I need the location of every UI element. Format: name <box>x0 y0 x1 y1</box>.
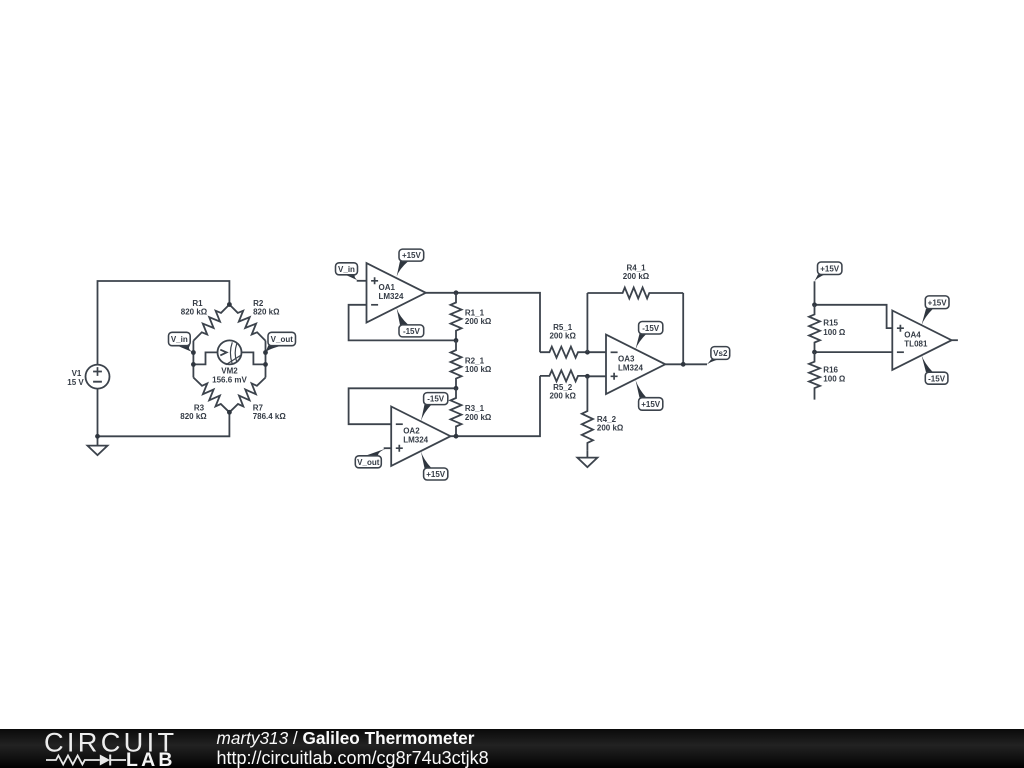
svg-text:LM324: LM324 <box>618 364 643 373</box>
power flag -15V OA1 <box>397 308 409 325</box>
node R1_1/R2_1 <box>454 338 459 343</box>
svg-text:+15V: +15V <box>928 298 948 307</box>
resistor R1 <box>193 305 229 341</box>
svg-text:OA3: OA3 <box>618 355 635 364</box>
resistor R2_1 <box>451 340 462 388</box>
wire OA2 +in stub <box>384 447 392 449</box>
svg-text:V_in: V_in <box>171 335 188 344</box>
svg-text:LAB: LAB <box>126 749 176 768</box>
wire bridge left corner <box>192 341 194 378</box>
wire OA3 -in <box>587 351 606 353</box>
flag V_out OA2 <box>365 448 387 456</box>
ground <box>97 436 99 445</box>
svg-text:OA2: OA2 <box>403 427 420 436</box>
node R15/R16 <box>812 350 817 355</box>
svg-text:100 Ω: 100 Ω <box>823 375 846 384</box>
wire OA3 output <box>665 363 707 365</box>
voltmeter VM2 <box>218 340 242 364</box>
flag V_out bridge <box>265 345 283 352</box>
wire R4_1 left <box>586 293 588 352</box>
svg-text:+15V: +15V <box>426 470 446 479</box>
power flag +15V OA2 <box>421 451 432 468</box>
svg-text:100 kΩ: 100 kΩ <box>465 365 492 374</box>
svg-text:V_out: V_out <box>357 458 380 467</box>
logo resistor-diode glyph <box>46 756 126 765</box>
resistor R3_1 <box>451 388 462 436</box>
resistor R2 <box>229 305 265 341</box>
svg-text:-15V: -15V <box>427 395 445 404</box>
wire V1 top rail <box>98 281 230 365</box>
svg-text:OA1: OA1 <box>379 283 396 292</box>
svg-text:820 kΩ: 820 kΩ <box>180 412 207 421</box>
svg-text:OA4: OA4 <box>904 331 921 340</box>
svg-text:-15V: -15V <box>403 327 421 336</box>
power flag +15V OA1 <box>397 261 409 277</box>
svg-text:200 kΩ: 200 kΩ <box>549 332 576 341</box>
node R2_1/R3_1 <box>454 386 459 391</box>
node V_out tap <box>263 350 268 355</box>
svg-text:+15V: +15V <box>402 251 422 260</box>
op-amp OA1 <box>367 263 426 322</box>
svg-text:200 kΩ: 200 kΩ <box>597 424 624 433</box>
svg-text:15 V: 15 V <box>67 378 84 387</box>
svg-text:200 kΩ: 200 kΩ <box>549 392 576 401</box>
svg-text:Vs2: Vs2 <box>713 349 728 358</box>
wire VM2 left <box>193 352 217 364</box>
resistor R4_1 <box>587 288 683 299</box>
power flag -15V OA3 <box>635 334 646 350</box>
svg-text:V_out: V_out <box>271 335 294 344</box>
voltage source V1 <box>86 365 110 389</box>
svg-text:VM2: VM2 <box>221 367 238 376</box>
svg-text:200 kΩ: 200 kΩ <box>623 272 650 281</box>
svg-text:V1: V1 <box>72 369 82 378</box>
node OA3 output <box>681 362 686 367</box>
svg-text:http://circuitlab.com/cg8r74u3: http://circuitlab.com/cg8r74u3ctjk8 <box>217 748 489 768</box>
footer bar <box>0 729 1024 768</box>
resistor R7 <box>229 378 265 413</box>
svg-text:V_in: V_in <box>338 265 355 274</box>
svg-text:+15V: +15V <box>820 264 840 273</box>
node bridge left lower <box>191 362 196 367</box>
node junction at ground <box>95 434 100 439</box>
power flag +15V R15 <box>815 274 826 281</box>
svg-text:156.6 mV: 156.6 mV <box>212 376 247 385</box>
power flag -15V OA2 <box>421 405 432 422</box>
node OA3 -in <box>585 350 590 355</box>
node OA3 +in <box>585 374 590 379</box>
wire R15/R16 node to OA4 - <box>815 351 893 353</box>
node V_in tap <box>191 350 196 355</box>
svg-text:-15V: -15V <box>928 374 946 383</box>
svg-text:786.4 kΩ: 786.4 kΩ <box>253 412 287 421</box>
wire VM2 right <box>242 352 266 364</box>
wire OA3 +in <box>587 375 606 377</box>
svg-text:100 Ω: 100 Ω <box>823 328 846 337</box>
resistor R16 <box>809 352 820 400</box>
wire OA1 output <box>426 293 540 352</box>
ground under R4_2 <box>586 451 588 458</box>
wire OA1 feedback <box>349 305 456 341</box>
node bridge bottom <box>227 410 232 415</box>
node R15 top <box>812 302 817 307</box>
flag Vs2 <box>707 359 719 364</box>
svg-text:TL081: TL081 <box>904 340 928 349</box>
node OA2 output <box>454 434 459 439</box>
resistor R5_2 <box>540 370 587 381</box>
power flag +15V OA4 <box>921 309 933 326</box>
wire R4_1 right <box>682 293 684 364</box>
wire V1 bottom rail <box>98 389 230 437</box>
flag V_in OA1 <box>345 275 359 281</box>
node bridge right lower <box>263 362 268 367</box>
wire R4_2 top <box>586 376 588 403</box>
op-amp OA2 <box>391 407 450 466</box>
svg-text:820 kΩ: 820 kΩ <box>181 308 208 317</box>
CircuitLab logo <box>44 727 177 768</box>
svg-text:-15V: -15V <box>642 324 660 333</box>
op-amp OA4 <box>892 311 951 370</box>
resistor R1_1 <box>451 293 462 341</box>
op-amp OA3 <box>606 335 665 394</box>
wire OA2 output <box>451 376 541 436</box>
resistor R4_2 <box>582 403 593 451</box>
resistor R15 <box>809 305 820 352</box>
wire +15V to node <box>814 281 816 305</box>
wire OA2 feedback <box>349 388 456 424</box>
svg-text:R16: R16 <box>823 365 838 374</box>
wire R15 node to OA4 + <box>815 305 893 328</box>
svg-text:marty313 / Galileo Thermometer: marty313 / Galileo Thermometer <box>217 728 475 748</box>
resistor R3 <box>193 378 229 413</box>
power flag +15V OA3 <box>635 379 646 397</box>
svg-text:200 kΩ: 200 kΩ <box>465 413 492 422</box>
node bridge top <box>227 302 232 307</box>
svg-text:LM324: LM324 <box>403 436 428 445</box>
svg-text:200 kΩ: 200 kΩ <box>465 317 492 326</box>
resistor R5_1 <box>540 347 587 358</box>
node OA1 output <box>454 290 459 295</box>
flag V_in bridge <box>177 345 194 352</box>
power flag -15V OA4 <box>921 355 933 373</box>
svg-text:R15: R15 <box>823 318 838 327</box>
svg-text:LM324: LM324 <box>379 292 404 301</box>
wire OA1 +in stub <box>357 280 367 282</box>
wire OA4 output <box>952 339 958 341</box>
wire bridge right corner <box>265 341 267 378</box>
svg-text:820 kΩ: 820 kΩ <box>253 308 280 317</box>
svg-text:+15V: +15V <box>641 400 661 409</box>
